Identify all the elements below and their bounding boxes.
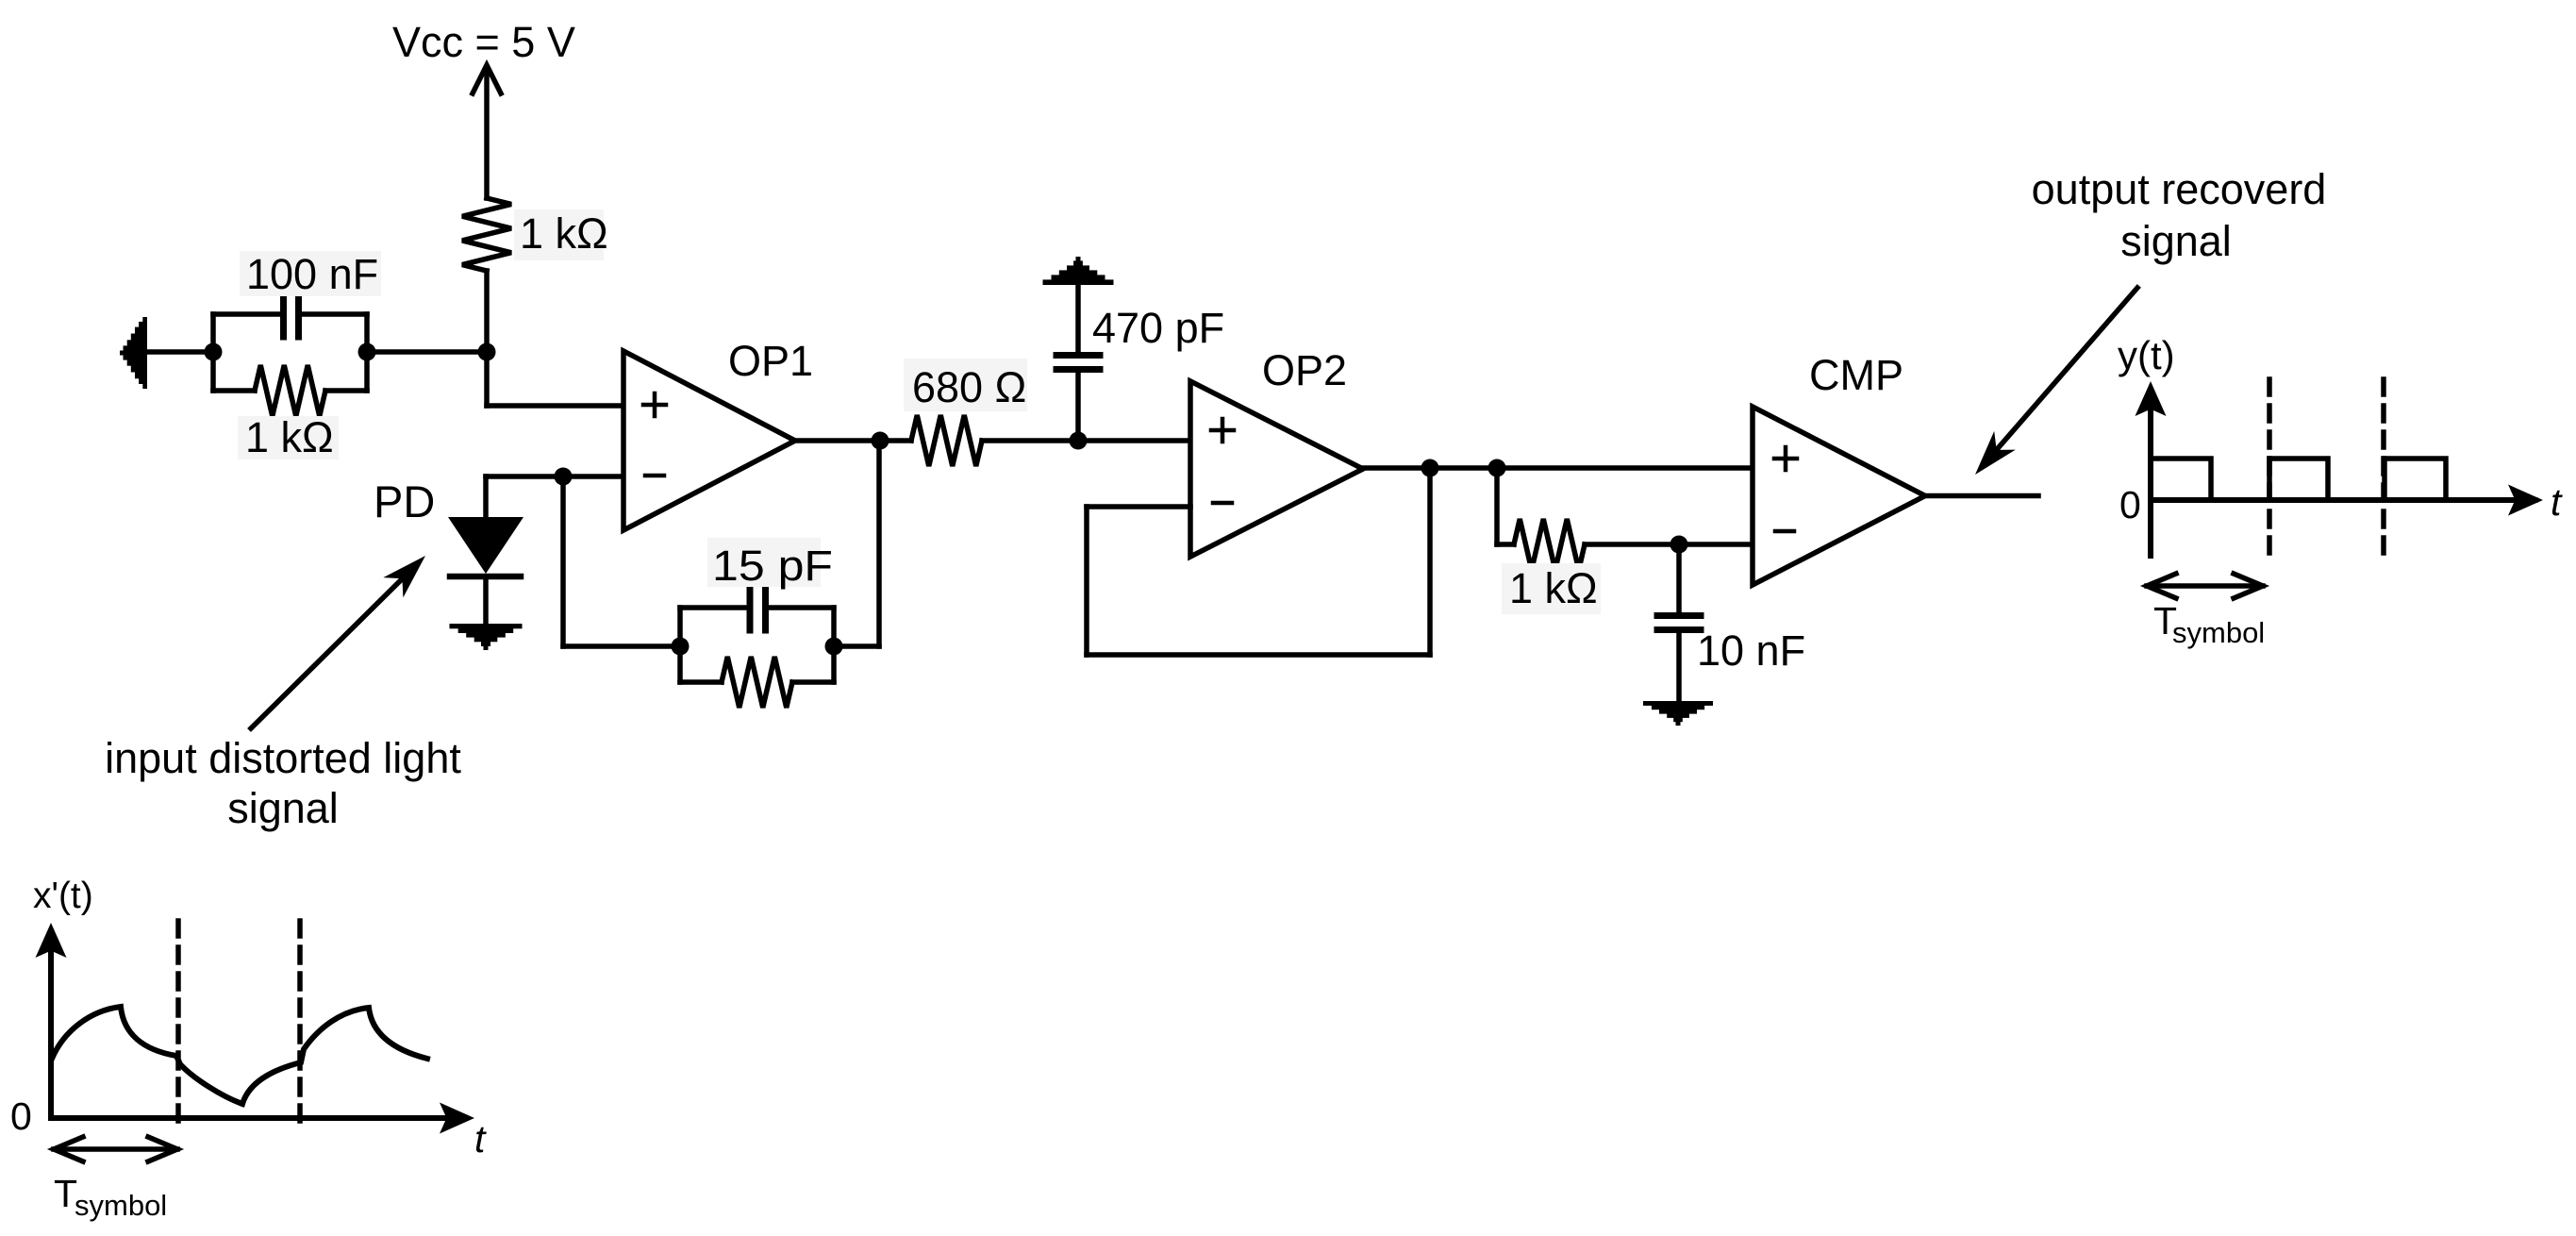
resistor R3 (feedback) xyxy=(680,657,834,708)
wire OP2 output to CMP + xyxy=(1363,465,1753,471)
R4 value label xyxy=(904,359,1027,411)
svg-text:1 kΩ: 1 kΩ xyxy=(245,413,334,461)
wire OP2 feedback loop xyxy=(1087,468,1430,655)
svg-text:OP2: OP2 xyxy=(1262,346,1347,394)
x'(t) dashed symbol boundaries xyxy=(178,921,300,1124)
node C (rail junction) xyxy=(478,343,496,361)
svg-text:t: t xyxy=(474,1117,487,1161)
svg-text:symbol: symbol xyxy=(2172,616,2265,649)
annotation arrow (output recovered signal) xyxy=(1975,288,2137,475)
y(t) square wave xyxy=(2152,459,2535,500)
node G (OP1 output) xyxy=(872,432,889,450)
ground (below PD) xyxy=(450,624,523,650)
svg-text:CMP: CMP xyxy=(1809,351,1903,399)
R1 value label xyxy=(514,209,608,260)
svg-text:x'(t): x'(t) xyxy=(33,876,93,916)
wire rail to OP1 + input xyxy=(487,271,623,406)
svg-text:15 pF: 15 pF xyxy=(712,542,833,590)
svg-text:t: t xyxy=(2551,480,2563,524)
capacitor C4 10 nF xyxy=(1657,544,1701,701)
svg-text:1 kΩ: 1 kΩ xyxy=(1509,564,1598,612)
capacitor C3 470 pF xyxy=(1056,284,1100,441)
C2 value label xyxy=(707,538,833,590)
node B (RC1 right) xyxy=(358,314,376,391)
op-amp OP1 xyxy=(623,351,795,530)
wire ground to RC node xyxy=(147,349,213,355)
svg-text:input distorted light: input distorted light xyxy=(105,734,461,782)
wire to CMP - input xyxy=(1585,542,1753,547)
wire PD to OP1 - input xyxy=(486,476,623,518)
power Vcc arrow xyxy=(473,65,501,198)
node E (RC2 left) xyxy=(672,608,690,682)
svg-text:PD: PD xyxy=(374,476,435,526)
node I (feedback tap) xyxy=(1421,459,1439,477)
R5 value label xyxy=(1502,563,1601,614)
capacitor C1 100 nF xyxy=(213,295,367,337)
node K (10 nF junction) xyxy=(1670,536,1688,554)
ground (left, rotated) xyxy=(120,317,147,389)
node D (inverting input junction) xyxy=(555,468,573,486)
photodiode PD xyxy=(448,517,524,624)
resistor R5 1 kΩ xyxy=(1514,519,1585,570)
svg-text:680 Ω: 680 Ω xyxy=(912,363,1026,411)
svg-text:y(t): y(t) xyxy=(2118,333,2175,377)
wire RC2 to OP1 output xyxy=(834,441,879,646)
y(t) Tsymbol arrow xyxy=(2147,574,2263,598)
node A (RC1 left) xyxy=(205,314,223,391)
wire RC1 to rail xyxy=(367,349,487,355)
x'(t) Tsymbol arrow xyxy=(54,1137,177,1161)
node J (CMP input branch) xyxy=(1488,459,1506,477)
C1 value label xyxy=(240,250,381,298)
svg-text:0: 0 xyxy=(10,1094,32,1138)
wire CMP output xyxy=(1925,493,2038,499)
resistor R4 680 Ω xyxy=(911,415,982,466)
wire to OP2 + input xyxy=(982,438,1190,443)
y(t) dashed symbol boundaries xyxy=(2269,379,2384,556)
ground (below C4) xyxy=(1643,701,1713,726)
svg-text:signal: signal xyxy=(227,784,339,832)
svg-text:1 kΩ: 1 kΩ xyxy=(520,209,608,258)
wire OP1 - to feedback block xyxy=(563,476,680,646)
svg-text:OP1: OP1 xyxy=(728,337,813,385)
graph y(t) axes xyxy=(2136,381,2544,556)
node H (470 pF junction) xyxy=(1070,432,1088,450)
capacitor C2 15 pF xyxy=(680,588,834,630)
resistor R2 1 kΩ (parallel) xyxy=(213,365,367,416)
svg-text:output recoverd: output recoverd xyxy=(2032,165,2327,213)
power symbol (above C3) xyxy=(1043,257,1114,285)
op-amp OP2 xyxy=(1190,381,1363,557)
svg-text:470 pF: 470 pF xyxy=(1092,304,1224,352)
svg-text:Vcc = 5 V: Vcc = 5 V xyxy=(392,18,575,66)
R2 value label xyxy=(238,413,339,461)
resistor R1 1 kΩ xyxy=(462,198,511,271)
svg-text:10 nF: 10 nF xyxy=(1697,626,1805,675)
svg-text:signal: signal xyxy=(2120,217,2232,265)
annotation arrow (input distorted light signal) xyxy=(251,556,425,728)
graph x'(t) axes xyxy=(36,923,475,1134)
comparator CMP xyxy=(1753,407,1925,585)
svg-text:0: 0 xyxy=(2119,483,2141,526)
x'(t) distorted waveform curve xyxy=(52,1007,427,1104)
svg-text:100 nF: 100 nF xyxy=(246,250,378,298)
wire node J down xyxy=(1497,468,1514,544)
svg-text:symbol: symbol xyxy=(75,1189,167,1222)
wire OP1 output xyxy=(795,438,911,443)
node F (RC2 right) xyxy=(825,608,843,682)
